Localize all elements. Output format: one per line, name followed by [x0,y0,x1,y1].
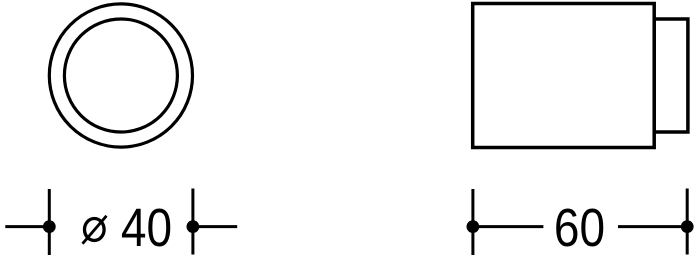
dimension 60: right dot [681,220,694,233]
dimension ø40: left extension line [5,225,49,228]
dimension ø40: right dot [187,220,200,233]
small rectangle (wall plate, side view) [654,19,688,132]
dimension ø40: left dot [43,220,56,233]
dimension 60: right line segment [618,225,687,228]
dimension 60: right tick [686,189,689,255]
dimension 60: left line segment [473,225,544,228]
dimension ø40: diameter symbol circle [85,219,105,241]
dimension 60: left dot [467,220,480,233]
big rectangle (body, side view) [473,4,655,148]
inner circle (front view) [64,19,177,132]
outer circle (front view) [49,4,192,147]
dimension ø40: right extension line [193,225,237,228]
dimension ø40: right tick [191,189,194,255]
dimension 60: left tick [471,189,474,255]
svg-text:40: 40 [121,198,172,258]
dimension ø40: left tick [48,189,51,255]
dimension ø40: diameter symbol slash [83,216,107,244]
svg-text:60: 60 [554,198,605,258]
